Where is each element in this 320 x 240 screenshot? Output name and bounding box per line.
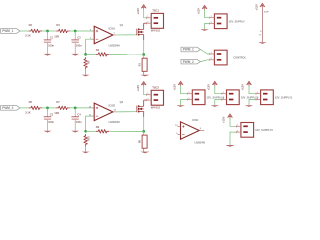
wire R1 to ground <box>143 71 145 74</box>
svg-text:C2: C2 <box>77 36 81 40</box>
wire R10 to ground <box>85 144 87 151</box>
pin 3 (+in) of IC6A <box>91 30 94 32</box>
pin 1 of 12V_SUPPLY1 <box>256 93 261 95</box>
capacitor C1 100n <box>47 31 49 35</box>
wire +12V to pin1 of 12V_SUPPLY <box>205 10 210 18</box>
wire PWM_2 to R6 <box>20 107 29 109</box>
pin 1 of TBC2 <box>146 94 151 96</box>
wire IC6A out to Q1 gate <box>116 34 137 36</box>
wire R9 to node S <box>109 130 144 132</box>
svg-text:2: 2 <box>211 22 212 24</box>
svg-text:2: 2 <box>147 98 148 100</box>
wire Q1 drain to terminal pin 2 <box>144 22 147 24</box>
ground of 12V_SUPPLY3 <box>225 145 235 147</box>
pin 2 of 12V_SUPPLY <box>209 23 214 25</box>
+12V supply symbol for 12V_SUPPLY4 <box>178 81 183 85</box>
ground of 12V_SUPPLY2 <box>211 105 219 107</box>
op-amp IC6A <box>94 26 113 44</box>
ground under C1 <box>44 54 52 56</box>
resistor R3 10R <box>56 29 69 33</box>
wire R4 to node S <box>109 53 144 55</box>
svg-text:100n: 100n <box>76 43 82 47</box>
wire node F to R9 <box>86 130 96 132</box>
svg-text:PWM_1: PWM_1 <box>2 29 13 33</box>
ground under R8 <box>140 152 149 154</box>
+12V supply symbol for 12V_SUPPLY2 <box>212 81 217 85</box>
svg-text:W4-512: W4-512 <box>151 106 161 110</box>
terminal block TBC2 <box>151 90 163 105</box>
wire pin2 of 12V_SUPPLY3 to ground <box>230 132 236 145</box>
net flag PWM_1 <box>1 29 20 34</box>
svg-text:R6: R6 <box>29 100 33 104</box>
ground under C4 <box>71 131 79 133</box>
+12V supply symbol at TBC1 <box>141 5 146 9</box>
wire R5 to ground <box>85 68 87 75</box>
pin 8 (out) of IC6C <box>199 130 204 132</box>
svg-text:5.1K: 5.1K <box>25 33 31 37</box>
circuit schematic, dual PWM-controlled MOSFET driver with LM324 <box>0 0 300 159</box>
ground of 12V_SUPPLY1 <box>245 105 253 107</box>
pin 1 of 12V_SUPPLY <box>209 17 214 19</box>
svg-text:IC6A: IC6A <box>109 27 116 31</box>
resistor R6 5.1K <box>29 106 42 110</box>
op-amp IC6D <box>94 103 113 121</box>
connector 12V_SUPPLY1 <box>261 90 274 105</box>
svg-text:10R: 10R <box>54 34 59 38</box>
wire pin2 of 12V_SUPPLY4 to ground <box>181 100 188 106</box>
svg-text:100n: 100n <box>48 43 54 47</box>
connector 12V_SUPPLY4 <box>192 90 205 105</box>
svg-text:LM324N: LM324N <box>195 140 205 144</box>
svg-text:R7: R7 <box>56 100 60 104</box>
svg-text:PWM_2: PWM_2 <box>2 106 13 110</box>
connector 12V_SUPPLY2 <box>227 90 240 105</box>
wire node S to R8 <box>143 131 145 135</box>
junction node B <box>74 30 77 33</box>
pin 1 of CONTROL <box>209 53 214 55</box>
capacitor C3 100n <box>47 108 49 112</box>
junction node B <box>74 107 77 110</box>
svg-text:100n: 100n <box>76 120 82 124</box>
terminal block TBC1 <box>151 13 163 28</box>
svg-text:2: 2 <box>211 58 212 60</box>
wire +12V to pin1 of 12V_SUPPLY4 <box>181 86 188 94</box>
op-amp power pins IC6P +12V <box>260 3 265 7</box>
junction node A <box>46 107 49 110</box>
svg-text:+12V: +12V <box>136 8 140 15</box>
svg-text:+12V: +12V <box>136 85 140 92</box>
svg-text:100n: 100n <box>48 120 54 124</box>
svg-text:1: 1 <box>211 16 212 18</box>
svg-text:R9: R9 <box>96 125 100 129</box>
svg-text:2: 2 <box>257 98 258 100</box>
ground under C2 <box>71 54 79 56</box>
pin 12 (+in) of IC6D <box>91 107 94 109</box>
pin 1 of 12V_SUPPLY3 <box>236 125 241 127</box>
svg-text:+12V: +12V <box>254 4 258 11</box>
svg-text:C1: C1 <box>50 36 54 40</box>
junction node S <box>142 130 145 133</box>
pin 9 (-in) of IC6C <box>178 134 181 136</box>
svg-text:2: 2 <box>189 98 190 100</box>
svg-text:TBC2: TBC2 <box>152 86 159 90</box>
pin 2 of 12V_SUPPLY4 <box>187 99 192 101</box>
svg-text:12V_SUPPLY1: 12V_SUPPLY1 <box>275 95 293 99</box>
wire node S to R1 <box>143 55 145 59</box>
svg-text:+12V: +12V <box>172 84 176 91</box>
pin 14 (out) of IC6D <box>113 111 116 113</box>
resistor R9 feedback <box>96 130 109 134</box>
svg-text:R3: R3 <box>56 23 60 27</box>
pin 2 of TBC1 <box>146 22 151 24</box>
wire R8 to ground <box>143 148 145 151</box>
svg-text:12V_SUPPLY3: 12V_SUPPLY3 <box>255 128 273 132</box>
connector 12V_SUPPLY <box>214 14 227 29</box>
svg-text:+12V: +12V <box>196 8 200 15</box>
op-amp IC6C <box>181 122 200 140</box>
net flag PWM_2 <box>1 106 20 111</box>
svg-text:PWM_1: PWM_1 <box>183 48 194 52</box>
wire IC6D -in feedback <box>86 116 92 131</box>
connector 12V_SUPPLY3 <box>241 123 254 138</box>
svg-text:1: 1 <box>189 92 190 94</box>
wire +12V to pin1 of 12V_SUPPLY3 <box>230 118 236 126</box>
svg-text:1: 1 <box>223 92 224 94</box>
transistor Q1 N-MOSFET <box>136 29 138 36</box>
svg-text:12V_SUPPLY: 12V_SUPPLY <box>229 19 245 23</box>
pin 2 of 12V_SUPPLY2 <box>222 99 227 101</box>
svg-text:Q1: Q1 <box>120 23 124 27</box>
pin 11 (GND) of IC6P <box>261 31 263 42</box>
+12V supply symbol for 12V_SUPPLY1 <box>247 81 252 85</box>
wire pin2 of 12V_SUPPLY to ground <box>205 24 210 30</box>
pin 2 of 12V_SUPPLY1 <box>256 99 261 101</box>
junction node A <box>46 30 49 33</box>
svg-text:PWM_2: PWM_2 <box>183 60 194 64</box>
wire +12V to pin1 of 12V_SUPPLY2 <box>215 86 222 94</box>
ground under R1 <box>140 75 149 77</box>
pin 1 (out) of IC6A <box>113 34 116 36</box>
wire pin2 of 12V_SUPPLY1 to ground <box>249 100 256 106</box>
svg-text:1: 1 <box>211 52 212 54</box>
wire R6 to node A <box>42 107 56 109</box>
ground of 12V_SUPPLY4 <box>176 105 184 107</box>
wire +12V to terminal pin 1 <box>144 87 147 95</box>
svg-text:2: 2 <box>223 98 224 100</box>
pin 2 of TBC2 <box>146 99 151 101</box>
svg-text:+12V: +12V <box>241 84 245 91</box>
resistor R2 5.1K <box>29 29 42 33</box>
wire Q2 drain to terminal pin 2 <box>144 99 147 101</box>
svg-text:1: 1 <box>147 93 148 95</box>
svg-text:5.1K: 5.1K <box>25 110 31 114</box>
capacitor C2 100n <box>74 31 76 35</box>
resistor R5 to ground <box>84 57 88 69</box>
svg-text:IC6D: IC6D <box>109 104 116 108</box>
svg-text:R10: R10 <box>88 136 91 141</box>
pin 1 of 12V_SUPPLY4 <box>187 93 192 95</box>
connector CONTROL <box>214 50 227 65</box>
svg-text:LM324N: LM324N <box>109 120 120 124</box>
junction node S <box>142 53 145 56</box>
pin 2 of 12V_SUPPLY3 <box>236 131 241 133</box>
wire PWM_1 to R2 <box>20 30 29 32</box>
svg-text:W4-512: W4-512 <box>151 29 161 33</box>
svg-text:R4: R4 <box>96 48 100 52</box>
pin 2 of CONTROL <box>209 59 214 61</box>
svg-text:CONTROL: CONTROL <box>233 56 246 60</box>
net flag PWM_2 (control) <box>181 59 200 64</box>
+12V supply symbol for 12V_SUPPLY3 <box>228 114 233 118</box>
wire +12V to terminal pin 1 <box>144 10 147 18</box>
svg-text:C4: C4 <box>77 113 81 117</box>
svg-text:+12V: +12V <box>222 116 226 123</box>
resistor R8 load <box>142 135 147 148</box>
wire node F to R4 <box>86 53 96 55</box>
svg-text:2: 2 <box>237 130 238 132</box>
ground under C3 <box>44 131 52 133</box>
ground of 12V_SUPPLY <box>200 29 208 31</box>
wire IC6A -in feedback <box>86 39 92 54</box>
resistor R10 to ground <box>84 134 88 146</box>
capacitor C4 100n <box>74 108 76 112</box>
svg-text:Q2: Q2 <box>120 100 124 104</box>
ground under R5 <box>82 75 90 77</box>
wire pin2 of 12V_SUPPLY2 to ground <box>215 100 222 106</box>
pin 1 of 12V_SUPPLY2 <box>222 93 227 95</box>
svg-text:IC6C: IC6C <box>192 118 198 122</box>
resistor R1 load <box>142 58 147 71</box>
svg-text:+12V: +12V <box>207 84 211 91</box>
net flag PWM_1 (control) <box>181 47 200 52</box>
wire Q2 source to node S <box>143 117 145 131</box>
pin 4 (V+) of IC6P <box>261 8 263 31</box>
svg-text:IC6P: IC6P <box>264 12 269 14</box>
pin 10 (+in) of IC6C <box>178 126 181 128</box>
wire IC6D out to Q2 gate <box>116 111 137 113</box>
resistor R7 10R <box>56 106 69 110</box>
pin 1 of TBC1 <box>146 17 151 19</box>
+12V supply symbol at TBC2 <box>141 81 146 85</box>
svg-text:R2: R2 <box>29 23 33 27</box>
svg-text:1: 1 <box>257 92 258 94</box>
svg-text:C3: C3 <box>50 113 54 117</box>
wire PWM_1 to CONTROL pin 1 <box>200 50 209 55</box>
svg-text:1: 1 <box>147 16 148 18</box>
ground under R10 <box>82 152 90 154</box>
wire R7 to node B <box>70 107 92 109</box>
svg-text:TBC1: TBC1 <box>152 9 159 13</box>
transistor Q2 N-MOSFET <box>136 106 138 113</box>
svg-text:LM324N: LM324N <box>109 43 120 47</box>
+12V supply symbol for 12V_SUPPLY <box>202 5 207 9</box>
svg-text:10R: 10R <box>54 111 59 115</box>
resistor R4 feedback <box>96 53 109 57</box>
wire +12V to pin1 of 12V_SUPPLY1 <box>249 86 256 94</box>
svg-text:1: 1 <box>237 125 238 127</box>
wire PWM_2 to CONTROL pin 2 <box>200 60 209 62</box>
junction node F <box>84 130 87 133</box>
ground at IC6P <box>258 42 266 44</box>
svg-text:2: 2 <box>147 22 148 24</box>
wire R2 to node A <box>42 30 56 32</box>
pin 2 (-in) of IC6A <box>91 38 94 40</box>
wire Q1 source to node S <box>143 40 145 54</box>
pin 13 (-in) of IC6D <box>91 115 94 117</box>
junction node F <box>84 53 87 56</box>
wire R3 to node B <box>70 30 92 32</box>
